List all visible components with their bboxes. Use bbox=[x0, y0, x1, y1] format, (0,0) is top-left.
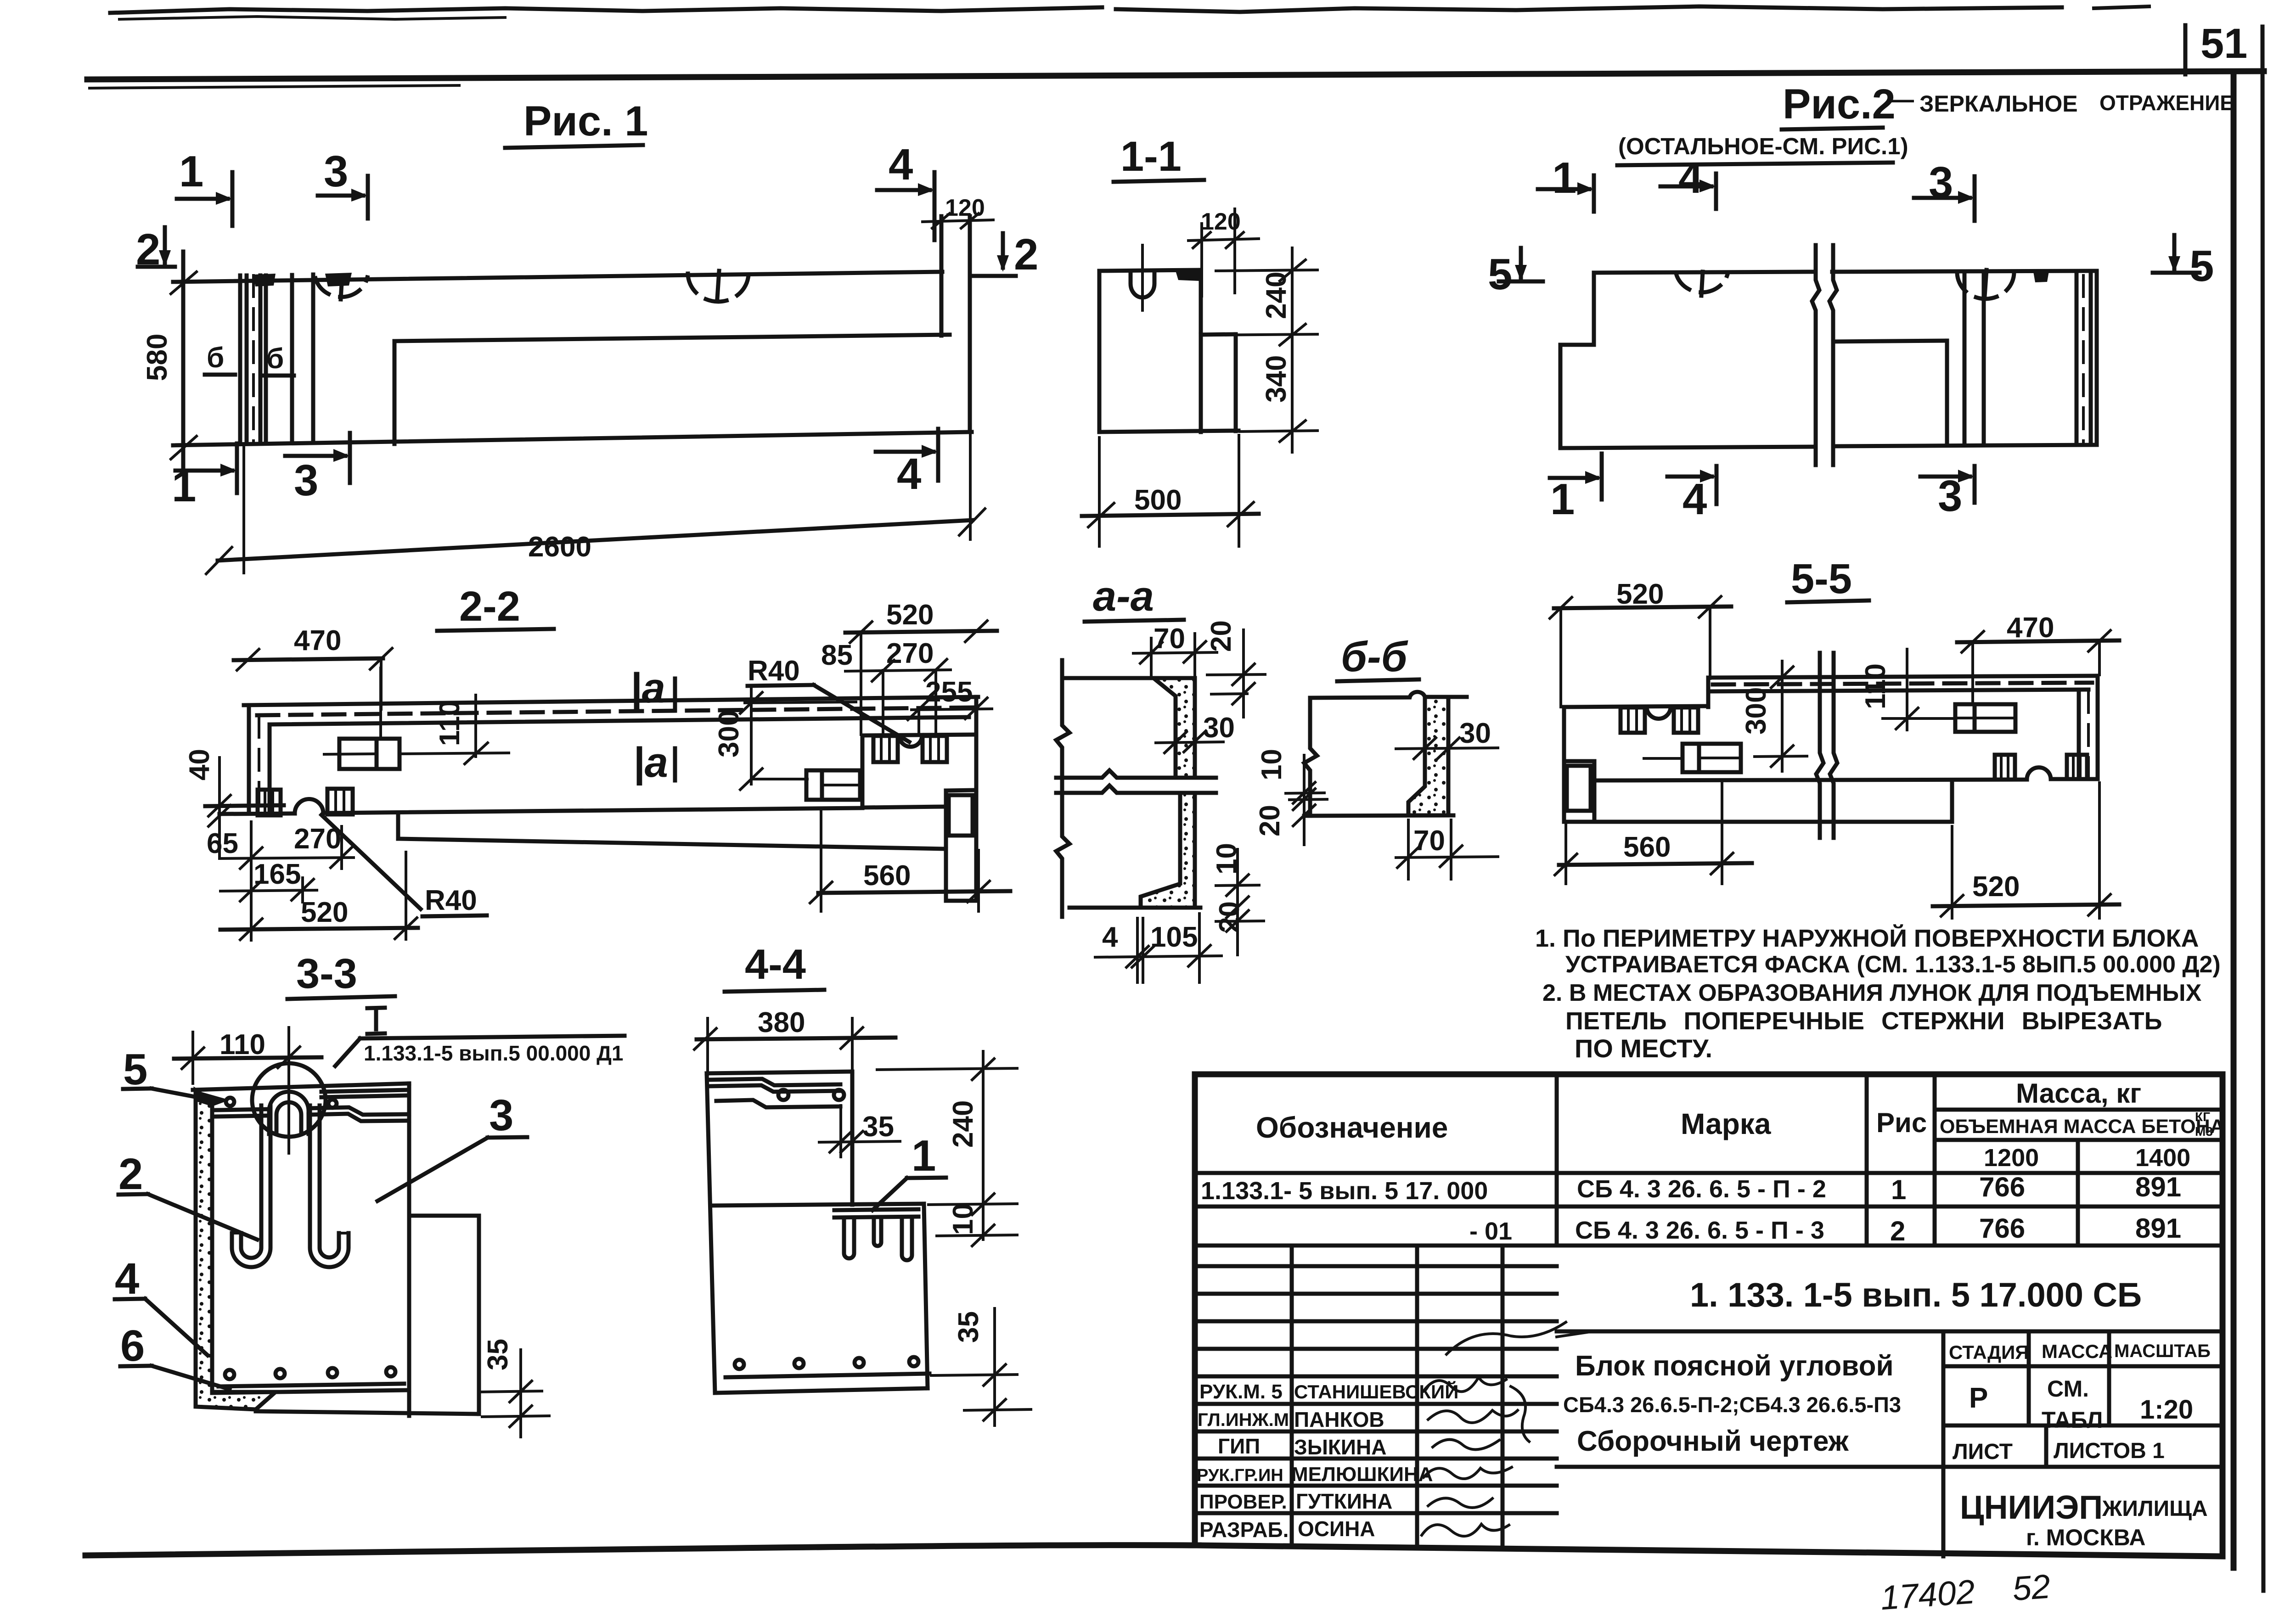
2-2 loop symbol right 2 bbox=[923, 736, 947, 762]
svg-text:105: 105 bbox=[1150, 921, 1198, 953]
2-2 lower ledge step bbox=[396, 813, 400, 839]
svg-text:766: 766 bbox=[1979, 1172, 2025, 1202]
svg-text:Обозначение: Обозначение bbox=[1256, 1111, 1448, 1144]
svg-text:2: 2 bbox=[1014, 230, 1038, 279]
svg-text:4: 4 bbox=[1683, 475, 1707, 524]
2-2 left dim 40 (rotated) bbox=[184, 749, 215, 780]
4-4 top mesh bars bbox=[708, 1079, 840, 1085]
5-5 lower ledge bbox=[1950, 780, 1954, 822]
Fig.1 title underline bbox=[505, 145, 643, 148]
Fig.2 right end verticals bbox=[2095, 271, 2099, 445]
svg-text:РУК.ГР.ИН: РУК.ГР.ИН bbox=[1197, 1466, 1283, 1485]
svg-text:270: 270 bbox=[886, 638, 934, 669]
svg-text:5: 5 bbox=[1488, 250, 1512, 299]
svg-text:Р: Р bbox=[1969, 1382, 1988, 1414]
2-2 recess notch right (bulge down) bbox=[899, 735, 922, 747]
svg-text:ТАБЛ: ТАБЛ bbox=[2042, 1407, 2103, 1433]
svg-text:35: 35 bbox=[482, 1339, 514, 1370]
svg-text:85: 85 bbox=[821, 640, 853, 671]
svg-text:УСТРАИВАЕТСЯ ФАСКА (СМ. 1.13: УСТРАИВАЕТСЯ ФАСКА (СМ. 1.133.1-5 8ЫП.5 … bbox=[1565, 951, 2221, 978]
svg-text:б: б bbox=[207, 342, 224, 374]
a-a top face bbox=[1062, 676, 1154, 680]
svg-text:1. По ПЕРИМЕТРУ НАРУЖНОЙ ПОВ: 1. По ПЕРИМЕТРУ НАРУЖНОЙ ПОВЕРХНОСТИ БЛО… bbox=[1535, 924, 2199, 952]
svg-text:5-5: 5-5 bbox=[1791, 555, 1852, 602]
4-4 step ledge line bbox=[712, 1204, 924, 1206]
3-3 outer wall (stippled) bbox=[196, 1090, 276, 1409]
svg-text:1.133.1- 5 вып. 5 17. 000: 1.133.1- 5 вып. 5 17. 000 bbox=[1201, 1177, 1488, 1205]
5-5 break line (zigzag pair) bbox=[1816, 653, 1823, 838]
svg-text:ЖИЛИЩА: ЖИЛИЩА bbox=[2102, 1497, 2208, 1521]
svg-text:ПО МЕСТУ.: ПО МЕСТУ. bbox=[1575, 1034, 1712, 1063]
svg-text:20: 20 bbox=[1205, 620, 1237, 652]
a-a break lines middle bbox=[1056, 770, 1216, 778]
svg-text:1200: 1200 bbox=[1984, 1144, 2039, 1172]
svg-text:КГ: КГ bbox=[2195, 1110, 2210, 1124]
svg-text:ЗЕРКАЛЬНОЕ: ЗЕРКАЛЬНОЕ bbox=[1919, 91, 2078, 117]
svg-text:ГУТКИНА: ГУТКИНА bbox=[1296, 1489, 1392, 1513]
column line Marka/Ris bbox=[1865, 1074, 1869, 1246]
svg-text:ОСИНА: ОСИНА bbox=[1298, 1517, 1375, 1541]
5-5 recess notch left (bulge down) bbox=[1647, 707, 1671, 719]
svg-text:Блок поясной угловой: Блок поясной угловой bbox=[1575, 1350, 1894, 1382]
4-4 support plate on ledge bbox=[834, 1209, 918, 1210]
svg-text:4: 4 bbox=[115, 1254, 139, 1303]
svg-text:|a: |a bbox=[630, 665, 665, 712]
svg-text:51: 51 bbox=[2200, 20, 2247, 67]
svg-text:4: 4 bbox=[1678, 153, 1703, 202]
handwritten archive number 17402 52 bbox=[1879, 1567, 2051, 1616]
svg-text:4: 4 bbox=[897, 449, 921, 499]
svg-text:17402 52: 17402 52 bbox=[1879, 1567, 2051, 1616]
svg-text:10: 10 bbox=[947, 1203, 979, 1235]
2-2 right end bbox=[974, 697, 979, 901]
5-5 right end verticals bbox=[2096, 676, 2100, 779]
3-3 bottom edge bbox=[256, 1411, 479, 1414]
Fig.1 inner step left vertical bbox=[393, 341, 397, 444]
svg-text:300: 300 bbox=[713, 710, 745, 757]
5-5 dashed centerline bbox=[1713, 683, 2092, 685]
page scan right edge bbox=[2262, 27, 2263, 1591]
svg-text:СТАНИШЕВСКИЙ: СТАНИШЕВСКИЙ bbox=[1294, 1380, 1458, 1403]
a-a dim 20 top (rotated) bbox=[1205, 620, 1237, 652]
Fig.2 break line (zigzag pair) bbox=[1812, 245, 1819, 465]
svg-text:1:20: 1:20 bbox=[2140, 1395, 2193, 1425]
svg-text:891: 891 bbox=[2135, 1172, 2181, 1202]
Fig.2 dashed recess arc left bbox=[1676, 273, 1728, 292]
svg-text:340: 340 bbox=[1261, 355, 1292, 403]
5-5 step top left bbox=[1706, 678, 1711, 707]
svg-text:10: 10 bbox=[1256, 749, 1288, 780]
svg-text:2: 2 bbox=[1890, 1216, 1905, 1246]
svg-text:3: 3 bbox=[324, 147, 348, 196]
stage/mass/scale sub-table bbox=[1941, 1331, 1946, 1556]
svg-text:240: 240 bbox=[1261, 272, 1292, 319]
2-2 loop symbol left 1 bbox=[258, 790, 281, 815]
svg-text:СБ4.3 26.6.5-П-2;СБ4.3 26.6.5: СБ4.3 26.6.5-П-2;СБ4.3 26.6.5-П3 bbox=[1563, 1392, 1901, 1417]
Fig.1 inner step rectangle top bbox=[394, 335, 950, 341]
svg-text:520: 520 bbox=[301, 897, 348, 928]
Fig.2 lower-left rectangle bbox=[1559, 345, 1563, 448]
svg-text:20: 20 bbox=[1254, 805, 1286, 836]
2-2 R40 label bottom with leader bbox=[321, 815, 421, 909]
svg-text:520: 520 bbox=[1972, 871, 2020, 903]
5-5 anchor plate symbol left bbox=[1683, 744, 1741, 772]
svg-text:120: 120 bbox=[945, 195, 985, 221]
2-2 dim 110 (rotated) bbox=[434, 700, 466, 746]
3-3 top face bbox=[193, 1083, 409, 1090]
svg-text:6: 6 bbox=[120, 1321, 145, 1370]
svg-text:3-3: 3-3 bbox=[296, 950, 357, 997]
svg-text:СТАДИЯ: СТАДИЯ bbox=[1949, 1341, 2029, 1363]
3-3 dim 35 bbox=[482, 1339, 514, 1370]
3-3 detail leader and label 1.133.1-5 вып.5 00.000 Д1 bbox=[335, 1038, 360, 1066]
svg-text:35: 35 bbox=[862, 1111, 894, 1143]
4-4 dim 35 bottom (rotated) bbox=[953, 1311, 985, 1343]
1-1 right dims 240 / 340 bbox=[1291, 248, 1294, 452]
svg-text:ЗЫКИНА: ЗЫКИНА bbox=[1294, 1435, 1386, 1459]
Fig.1 internal vertical pair 2 bbox=[259, 275, 263, 443]
svg-text:1-1: 1-1 bbox=[1120, 133, 1182, 180]
Fig.1 right column verticals (120 wide) bbox=[940, 216, 944, 336]
b-b top face with bump bbox=[1310, 692, 1467, 698]
svg-text:560: 560 bbox=[1623, 831, 1671, 863]
5-5 dim 300 (rotated) bbox=[1740, 687, 1772, 735]
3-3 top mesh bars right bbox=[309, 1107, 409, 1115]
2-2 dim 300 (rotated) bbox=[713, 710, 745, 757]
svg-text:(ОСТАЛЬНОЕ-СМ. РИС.1): (ОСТАЛЬНОЕ-СМ. РИС.1) bbox=[1618, 133, 1908, 159]
svg-text:Рис: Рис bbox=[1876, 1107, 1927, 1138]
svg-text:4-4: 4-4 bbox=[745, 941, 806, 988]
svg-text:ЛИСТ: ЛИСТ bbox=[1953, 1440, 2013, 1464]
2-2 band bottom edge with recess notch bbox=[219, 799, 862, 814]
svg-text:|a: |a bbox=[633, 739, 668, 786]
4-4 bottom mesh plate bbox=[726, 1374, 929, 1377]
svg-text:R40: R40 bbox=[748, 655, 800, 687]
column line Oboznachenie/Marka bbox=[1555, 1074, 1559, 1246]
2-2 outer top edge bbox=[244, 697, 978, 705]
svg-text:МАСШТАБ: МАСШТАБ bbox=[2114, 1341, 2211, 1361]
page scan bottom edge bbox=[85, 1545, 1199, 1555]
b-b wall (stippled) bbox=[1408, 697, 1448, 815]
5-5 left end bbox=[1562, 707, 1566, 822]
svg-text:30: 30 bbox=[1459, 718, 1491, 749]
b-b left break edge bbox=[1304, 698, 1317, 816]
svg-text:110: 110 bbox=[219, 1029, 265, 1060]
svg-text:1.133.1-5 вып.5 00.000 Д1: 1.133.1-5 вып.5 00.000 Д1 bbox=[364, 1041, 623, 1065]
4-4 upper right edge bbox=[850, 1072, 855, 1205]
svg-text:2600: 2600 bbox=[528, 531, 591, 563]
svg-text:ПРОВЕР.: ПРОВЕР. bbox=[1199, 1491, 1287, 1513]
svg-text:Рис. 1: Рис. 1 bbox=[523, 98, 648, 145]
Fig.1 dashed recess arc right with tick bbox=[688, 273, 748, 302]
svg-text:2-2: 2-2 bbox=[459, 583, 520, 630]
2-2 inner face line left end bbox=[205, 805, 284, 806]
3-3 bottom floor line bbox=[212, 1390, 409, 1393]
svg-text:СМ.: СМ. bbox=[2047, 1376, 2089, 1402]
Fig.1 internal vertical pair left bbox=[238, 275, 242, 443]
svg-text:35: 35 bbox=[953, 1311, 985, 1343]
2-2 dashed centerline bbox=[257, 707, 974, 715]
Fig.2 black recess mark bbox=[2033, 271, 2049, 282]
svg-text:ОТРАЖЕНИЕ: ОТРАЖЕНИЕ bbox=[2099, 91, 2234, 115]
a-a wall lower with foot (stippled) bbox=[1141, 793, 1195, 908]
1-1 black corner mark bbox=[1176, 270, 1200, 281]
svg-text:ЛИСТОВ 1: ЛИСТОВ 1 bbox=[2054, 1439, 2165, 1463]
svg-text:30: 30 bbox=[1203, 712, 1235, 744]
Fig.1 dashed recess arc left with tick bbox=[315, 277, 367, 297]
svg-text:Масса, кг: Масса, кг bbox=[2016, 1078, 2141, 1109]
4-4 dim 240 (rotated) bbox=[947, 1100, 979, 1148]
svg-text:766: 766 bbox=[1979, 1213, 2025, 1244]
4-4 bottom edge bbox=[715, 1388, 928, 1393]
signature grid rows bbox=[1195, 1264, 1557, 1268]
4-4 bottom bar circles bbox=[735, 1360, 744, 1369]
drawing frame right edge bbox=[2231, 74, 2237, 1568]
3-3 lifting loop section (detail) bbox=[269, 1092, 309, 1134]
a-a dims 10 / 20 bottom (rotated) bbox=[1211, 843, 1243, 875]
svg-text:ПАНКОВ: ПАНКОВ bbox=[1294, 1408, 1384, 1431]
svg-text:СБ 4. 3 26. 6. 5 - П - 3: СБ 4. 3 26. 6. 5 - П - 3 bbox=[1575, 1217, 1824, 1244]
2-2 anchor plate symbol left bbox=[339, 739, 400, 769]
5-5 left portion loops hanging below bbox=[1621, 707, 1645, 733]
svg-text:R40: R40 bbox=[425, 885, 477, 916]
4-4 dim 10 (rotated) bbox=[947, 1203, 979, 1235]
svg-text:470: 470 bbox=[294, 625, 341, 656]
2-2 inner top edge bbox=[270, 717, 969, 724]
4-4 left edge bbox=[707, 1073, 715, 1393]
document number cell bbox=[1557, 1330, 2223, 1334]
svg-text:500: 500 bbox=[1134, 484, 1182, 516]
signature grid columns bbox=[1290, 1246, 1294, 1546]
3-3 ledge rectangle bbox=[409, 1214, 479, 1218]
a-a left break boundary bbox=[1056, 660, 1069, 917]
svg-text:110: 110 bbox=[434, 700, 466, 746]
svg-text:Марка: Марка bbox=[1681, 1107, 1771, 1140]
svg-text:1: 1 bbox=[179, 147, 203, 196]
svg-text:МЕЛЮШКИНА: МЕЛЮШКИНА bbox=[1291, 1463, 1433, 1486]
5-5 top edge right portion bbox=[1708, 676, 2098, 678]
svg-text:5: 5 bbox=[2189, 241, 2214, 291]
svg-text:65: 65 bbox=[207, 828, 238, 859]
5-5 inner top edge bbox=[1708, 690, 2088, 691]
svg-text:70: 70 bbox=[1154, 623, 1185, 655]
Fig.1 black recess marks on top edge bbox=[253, 274, 276, 286]
4-4 block top edge bbox=[707, 1072, 852, 1073]
svg-text:470: 470 bbox=[2007, 612, 2054, 644]
Fig.2 dashed recess arc right bbox=[1957, 272, 2014, 299]
svg-text:300: 300 bbox=[1740, 687, 1772, 735]
svg-text:1: 1 bbox=[1891, 1174, 1906, 1205]
4-4 lower right edge bbox=[924, 1204, 928, 1388]
svg-text:380: 380 bbox=[758, 1007, 805, 1038]
svg-text:1400: 1400 bbox=[2135, 1144, 2190, 1172]
svg-text:3: 3 bbox=[294, 456, 318, 505]
svg-text:1. 133. 1-5 вып. 5 17.000 С: 1. 133. 1-5 вып. 5 17.000 СБ bbox=[1690, 1276, 2142, 1314]
3-3 detail circle bbox=[252, 1063, 326, 1137]
svg-text:1: 1 bbox=[1550, 475, 1575, 524]
svg-text:ПЕТЕЛЬ ПОПЕРЕЧНЫЕ СТЕРЖНИ В: ПЕТЕЛЬ ПОПЕРЕЧНЫЕ СТЕРЖНИ ВЫРЕЗАТЬ bbox=[1565, 1007, 2162, 1035]
Fig.1 internal single verticals bbox=[290, 275, 294, 443]
5-5 band bottom edge with recess notch right bbox=[1594, 768, 2098, 780]
top border heavy line bbox=[87, 71, 2264, 79]
1-1 step column bbox=[1201, 334, 1236, 335]
3-3 detail mark I bbox=[367, 1008, 385, 1008]
svg-text:1: 1 bbox=[1552, 153, 1576, 202]
svg-text:—: — bbox=[1888, 84, 1914, 113]
1-1 block outline bbox=[1097, 271, 1102, 432]
svg-text:- 01: - 01 bbox=[1469, 1218, 1512, 1245]
b-b dims 10 / 20 left (rotated) bbox=[1256, 749, 1288, 780]
Fig.2 inner step (right half) bbox=[1833, 341, 1947, 342]
b-b bottom face bbox=[1304, 815, 1453, 816]
svg-text:РУК.М. 5: РУК.М. 5 bbox=[1199, 1380, 1283, 1403]
svg-text:МАССА: МАССА bbox=[2042, 1341, 2112, 1362]
Fig.1 dim text 580 (rotated) bbox=[141, 334, 173, 381]
Fig.1 dashed centerline vertical bbox=[252, 275, 255, 443]
5-5 dim 110 (rotated) bbox=[1860, 663, 1891, 709]
Fig.1 block top edge bbox=[173, 272, 942, 282]
svg-text:М3: М3 bbox=[2195, 1124, 2213, 1139]
svg-text:110: 110 bbox=[1860, 663, 1891, 709]
Fig.1 block bottom edge bbox=[173, 432, 972, 445]
3-3 wall inner edge bbox=[210, 1102, 214, 1392]
title block outer frame bbox=[1195, 1074, 2223, 1556]
2-2 left end verticals bbox=[247, 705, 251, 814]
svg-text:580: 580 bbox=[141, 334, 173, 381]
5-5 anchor plate symbol right bbox=[1955, 704, 2015, 732]
5-5 top edge left portion bbox=[1564, 706, 1708, 707]
svg-text:ОБЪЕМНАЯ МАССА БЕТОНА: ОБЪЕМНАЯ МАССА БЕТОНА bbox=[1940, 1116, 2224, 1138]
sheet row bbox=[2044, 1425, 2048, 1467]
svg-text:40: 40 bbox=[184, 749, 215, 780]
stray signature flourish above bbox=[1446, 1322, 1566, 1354]
3-3 top seam bars left bbox=[216, 1109, 269, 1110]
svg-text:a-a: a-a bbox=[1093, 573, 1154, 620]
svg-text:240: 240 bbox=[947, 1100, 979, 1148]
svg-text:255: 255 bbox=[925, 676, 973, 708]
3-3 hook bar right bbox=[310, 1105, 349, 1267]
2-2 anchor plate symbol right bbox=[806, 770, 860, 800]
svg-text:Сборочный чертеж: Сборочный чертеж bbox=[1577, 1425, 1849, 1457]
1-1 lifting recess bbox=[1131, 272, 1154, 297]
svg-text:ЦНИИЭП: ЦНИИЭП bbox=[1960, 1489, 2103, 1526]
svg-text:70: 70 bbox=[1413, 825, 1445, 857]
a-a bottom face bbox=[1069, 906, 1200, 910]
2-2 loop symbol right 1 bbox=[873, 736, 898, 762]
3-3 bottom bar circles bbox=[225, 1370, 234, 1379]
column line Ris/Massa bbox=[1933, 1074, 1937, 1246]
4-4 plate pins bbox=[844, 1218, 854, 1258]
2-2 step to thin right part bbox=[861, 735, 865, 808]
svg-text:СБ 4. 3 26. 6. 5 - П - 2: СБ 4. 3 26. 6. 5 - П - 2 bbox=[1577, 1175, 1826, 1203]
2-2 loop symbol left 2 bbox=[327, 789, 353, 814]
svg-text:3: 3 bbox=[489, 1091, 513, 1140]
a-a wall upper (stippled) bbox=[1154, 678, 1195, 778]
page number 51 box divider bbox=[2183, 25, 2188, 74]
svg-text:560: 560 bbox=[863, 860, 911, 892]
svg-text:б-б: б-б bbox=[1341, 634, 1408, 680]
svg-text:520: 520 bbox=[886, 599, 934, 631]
svg-text:165: 165 bbox=[253, 858, 301, 890]
3-3 corner wedge bbox=[196, 1090, 230, 1106]
3-3 center axis bbox=[287, 1027, 290, 1153]
column line 1200/1400 bbox=[2076, 1140, 2080, 1246]
svg-text:2: 2 bbox=[118, 1150, 143, 1199]
svg-text:ГЛ.ИНЖ.М: ГЛ.ИНЖ.М bbox=[1198, 1410, 1289, 1430]
svg-text:1: 1 bbox=[912, 1131, 936, 1180]
5-5 right portion loops above bottom bbox=[1995, 755, 2015, 780]
svg-text:РАЗРАБ.: РАЗРАБ. bbox=[1199, 1518, 1289, 1542]
Fig.1 block left edge / 580 dim line bbox=[181, 252, 186, 474]
Fig.2 left upper band edge bbox=[1592, 273, 1596, 345]
svg-text:Рис.2: Рис.2 bbox=[1783, 81, 1896, 128]
svg-text:ГИП: ГИП bbox=[1218, 1434, 1260, 1458]
header row lines bbox=[1935, 1108, 2223, 1112]
3-3 bottom mesh plate bbox=[219, 1384, 404, 1386]
svg-text:891: 891 bbox=[2135, 1213, 2181, 1244]
3-3 main body right edge bbox=[407, 1083, 411, 1416]
svg-text:2. В МЕСТАХ ОБРАЗОВАНИЯ ЛУНОК: 2. В МЕСТАХ ОБРАЗОВАНИЯ ЛУНОК ДЛЯ ПОДЪЕМ… bbox=[1542, 980, 2202, 1006]
svg-text:б: б bbox=[266, 343, 284, 375]
page scan top edge scribble bbox=[110, 7, 1102, 13]
3-3 hook bar left bbox=[232, 1105, 270, 1267]
svg-text:4: 4 bbox=[1102, 921, 1118, 953]
svg-text:г. МОСКВА: г. МОСКВА bbox=[2026, 1525, 2146, 1550]
signature squiggles bbox=[1424, 1377, 1506, 1392]
svg-text:4: 4 bbox=[889, 140, 913, 189]
Fig.2 top edge (with break gap) bbox=[1594, 272, 1815, 273]
